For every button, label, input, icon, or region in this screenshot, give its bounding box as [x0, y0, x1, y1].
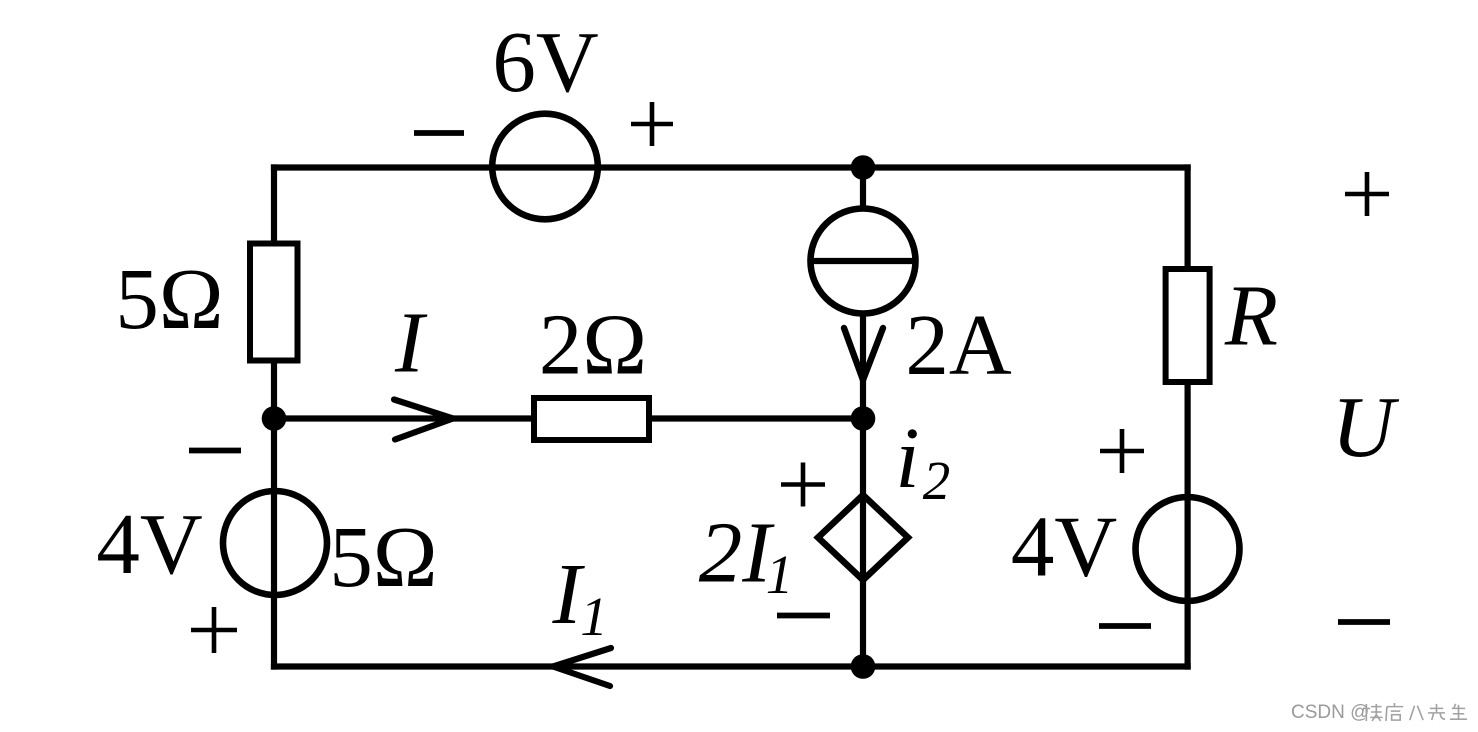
voltage source 4V right (circle) [1136, 497, 1240, 601]
wire middle vertical lower: node B through diamond source to bottom node [860, 419, 866, 667]
arrow of current I1 (left-pointing chevron on bottom wire) [553, 648, 611, 686]
polarity minus of diamond source [777, 613, 830, 619]
wire left upper: top corner down to 5-ohm resistor [271, 164, 277, 246]
resistor R (right) [1166, 269, 1210, 382]
wire middle horizontal: node A to node B through 2-ohm resistor [274, 415, 863, 421]
watermark char dian [1386, 703, 1403, 721]
arrow of 2A source (down) [844, 328, 883, 380]
polarity minus of 6V [414, 130, 464, 136]
polarity minus of U (far right) [1338, 619, 1390, 625]
node A dot (left middle junction) [262, 406, 287, 431]
arrow of current I (right-pointing chevron on middle wire) [394, 400, 453, 440]
voltage source 4V left (circle) [223, 491, 327, 595]
watermark char ba [1410, 706, 1423, 720]
svg-text:2I: 2I [699, 504, 776, 601]
polarity plus of U (far right) [1345, 172, 1389, 216]
svg-text:5Ω: 5Ω [115, 250, 223, 347]
polarity minus of 4V left [189, 448, 241, 454]
svg-text:5Ω: 5Ω [329, 508, 437, 605]
watermark char sheng [1450, 704, 1467, 719]
svg-text:6V: 6V [492, 13, 598, 110]
polarity plus of 6V [631, 102, 673, 146]
wire middle vertical: 2A source to node B [860, 310, 866, 419]
svg-text:1: 1 [766, 544, 794, 605]
watermark char xian [1428, 704, 1445, 720]
svg-text:1: 1 [580, 586, 608, 647]
voltage source 6V (circle) [492, 114, 598, 220]
polarity plus of 4V left [191, 607, 237, 653]
wire bottom: from left corner to right corner [271, 663, 1191, 669]
svg-text:U: U [1332, 378, 1400, 475]
svg-text:I: I [394, 294, 428, 391]
svg-text:2: 2 [923, 450, 951, 511]
resistor 5ohm (top left) [250, 244, 298, 361]
svg-text:4V: 4V [96, 495, 202, 592]
svg-text:i: i [895, 409, 919, 506]
current source 2A (circle with bar) [811, 209, 916, 314]
svg-text:2A: 2A [905, 296, 1012, 393]
wire right lower: resistor R through 4V source to bottom corner [1184, 380, 1190, 670]
svg-text:CSDN @: CSDN @ [1291, 702, 1369, 723]
wire right upper: top corner down to resistor R [1184, 164, 1190, 271]
watermark char lou [1364, 704, 1383, 721]
wire middle vertical upper: top node to 2A source [860, 168, 866, 213]
polarity plus of 4V right [1100, 429, 1144, 473]
wire top: left corner to right corner through 6V source [271, 164, 1191, 170]
wire left lower: 5-ohm resistor through node A and 4V source to bottom [271, 358, 277, 670]
polarity plus of diamond source [781, 463, 825, 507]
polarity minus of 4V right [1099, 623, 1151, 629]
dependent source 2I1 (diamond) [818, 495, 908, 580]
svg-text:4V: 4V [1011, 498, 1117, 595]
svg-text:2Ω: 2Ω [539, 296, 647, 393]
node dot top (junction of 6V wire and 2A branch) [851, 155, 876, 180]
node dot bottom (junction on bottom wire) [851, 654, 876, 679]
svg-text:R: R [1224, 267, 1278, 364]
resistor 2ohm (middle) [534, 398, 649, 440]
node B dot (middle junction) [851, 406, 876, 431]
